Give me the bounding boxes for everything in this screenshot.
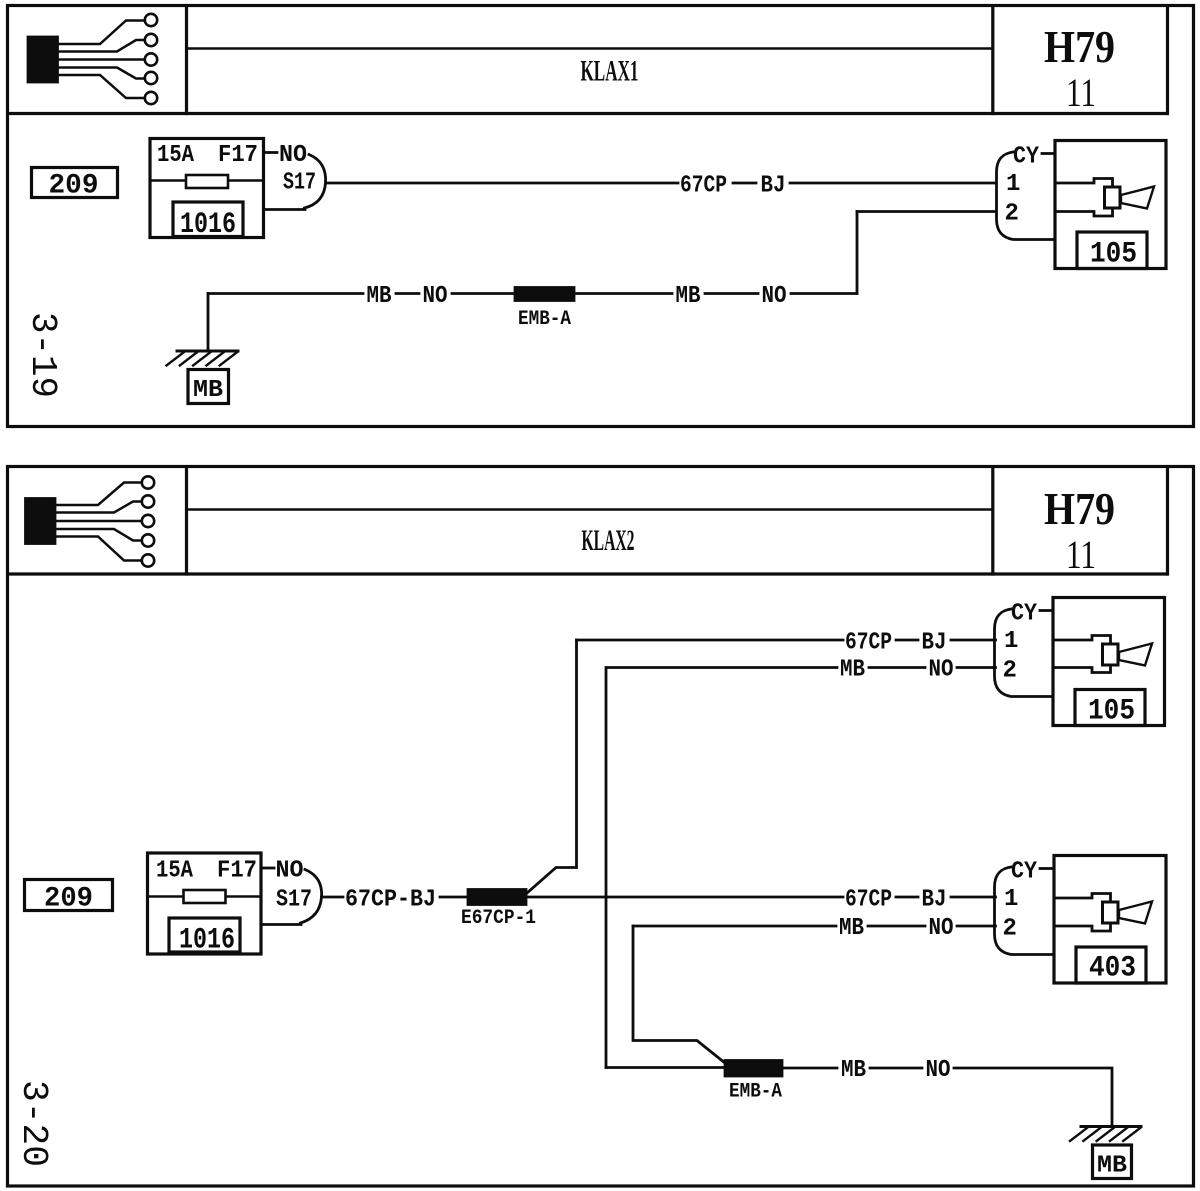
svg-text:67CP: 67CP bbox=[680, 173, 727, 200]
horn driver bbox=[1105, 187, 1121, 208]
wire dash between 67CP and BJ bbox=[896, 896, 918, 899]
wire 67CP from S17 to label bbox=[326, 182, 679, 185]
panel 2 harness connector icon (black body) bbox=[26, 476, 155, 566]
connector S17 arc bbox=[305, 155, 326, 209]
svg-text:403: 403 bbox=[1089, 952, 1136, 986]
svg-text:11: 11 bbox=[1066, 532, 1096, 577]
svg-text:NO: NO bbox=[279, 142, 307, 169]
svg-text:CY: CY bbox=[1011, 601, 1038, 628]
svg-text:KLAX1: KLAX1 bbox=[581, 55, 639, 88]
connector S17 stub to NO bbox=[264, 151, 277, 154]
svg-text:1: 1 bbox=[1006, 171, 1020, 198]
svg-text:105: 105 bbox=[1088, 695, 1135, 729]
panel 1 H79-cell left divider bbox=[991, 7, 994, 114]
svg-text:CY: CY bbox=[1013, 144, 1040, 171]
horn feed top bbox=[1055, 179, 1113, 188]
horn cone bbox=[1119, 644, 1152, 666]
svg-text:NO: NO bbox=[423, 283, 448, 310]
svg-text:2: 2 bbox=[1003, 658, 1017, 685]
svg-text:209: 209 bbox=[49, 171, 99, 202]
svg-text:15A: 15A bbox=[157, 142, 195, 169]
wire splice to MB label bbox=[574, 292, 672, 295]
wire 67CP splice to horn 403 bbox=[526, 896, 843, 899]
svg-text:1: 1 bbox=[1004, 628, 1018, 655]
connector icon wire 4 bbox=[57, 68, 145, 79]
panel 1 outer frame bbox=[8, 6, 1194, 427]
svg-text:15A: 15A bbox=[156, 858, 194, 885]
svg-text:MB: MB bbox=[841, 1057, 866, 1084]
fuse element symbol bbox=[184, 890, 226, 903]
svg-text:NO: NO bbox=[929, 915, 954, 942]
svg-text:2: 2 bbox=[1005, 201, 1019, 228]
CY dash to box bbox=[1040, 867, 1053, 870]
component number 105 bbox=[1077, 232, 1147, 269]
horn 105 (panel 2) bbox=[1053, 598, 1165, 729]
horn 105 (panel 1) bbox=[1055, 141, 1166, 272]
connector icon wire 5 bbox=[57, 75, 145, 98]
wire NO to horn 403 pin 2 bbox=[957, 925, 996, 928]
svg-text:1016: 1016 bbox=[180, 208, 236, 242]
wire MB from horn 105 pin 2 down bbox=[857, 210, 996, 213]
svg-text:CY: CY bbox=[1011, 859, 1038, 886]
panel 2 H79-cell left divider bbox=[991, 468, 994, 574]
horn cone bbox=[1119, 902, 1152, 924]
wire MB down to splice EMB-A bbox=[633, 926, 725, 1063]
panel 2 outer frame bbox=[8, 467, 1194, 1187]
earth ground symbol MB (panel 1) bbox=[167, 351, 239, 404]
connector icon wire 1 bbox=[55, 483, 142, 506]
svg-text:EMB-A: EMB-A bbox=[729, 1081, 782, 1104]
fuse F17 15A (supply box 1016, panel 2) bbox=[148, 853, 262, 958]
svg-text:E67CP-1: E67CP-1 bbox=[461, 907, 536, 930]
svg-text:MB: MB bbox=[367, 283, 392, 310]
svg-text:H79: H79 bbox=[1044, 21, 1115, 72]
connector icon wire 4 bbox=[55, 529, 142, 541]
panel 1 H79-cell right edge bbox=[1166, 7, 1169, 114]
svg-text:1: 1 bbox=[1004, 886, 1018, 913]
horn cone bbox=[1121, 187, 1154, 209]
wire dash between 67CP and BJ bbox=[896, 639, 918, 642]
connector icon wire 2 bbox=[57, 40, 145, 52]
svg-text:F17: F17 bbox=[217, 858, 257, 885]
wire dash MB-NO bbox=[396, 292, 419, 295]
wire MB from horn 105 pin 2 bbox=[606, 668, 837, 1068]
horn feed bottom bbox=[1055, 208, 1113, 216]
panel 1 header bottom line bbox=[9, 112, 1167, 115]
wire 67CP-BJ from S17 to splice bbox=[322, 896, 344, 899]
connector icon wire 2 bbox=[55, 502, 142, 513]
wire dash MB-NO bbox=[870, 1067, 922, 1070]
CY dash to box bbox=[1042, 152, 1054, 155]
svg-text:11: 11 bbox=[1066, 70, 1096, 115]
wire dash MB-NO bbox=[869, 666, 925, 669]
svg-text:1016: 1016 bbox=[179, 924, 235, 958]
svg-text:NO: NO bbox=[929, 657, 954, 684]
svg-text:209: 209 bbox=[44, 884, 93, 915]
ground wire from earth MB bbox=[207, 294, 210, 351]
wire dash MB-NO bbox=[705, 292, 758, 295]
connector icon wire 3 bbox=[55, 520, 142, 523]
label box 209 (panel 2) bbox=[25, 880, 113, 915]
panel 2 H79-cell right edge bbox=[1166, 468, 1169, 574]
horn feed top bbox=[1053, 636, 1111, 645]
svg-text:H79: H79 bbox=[1044, 483, 1115, 534]
connector icon pin circles bbox=[142, 476, 154, 488]
svg-text:67CP: 67CP bbox=[845, 630, 892, 657]
svg-text:MB: MB bbox=[676, 283, 701, 310]
svg-text:BJ: BJ bbox=[922, 887, 947, 914]
splice EMB-A bbox=[515, 288, 574, 332]
panel 2 title box top line bbox=[187, 508, 993, 511]
svg-text:MB: MB bbox=[840, 657, 865, 684]
svg-text:NO: NO bbox=[762, 283, 787, 310]
CY dash to box bbox=[1040, 609, 1052, 612]
panel 2 header bottom line bbox=[9, 572, 1167, 575]
svg-text:MB: MB bbox=[193, 377, 223, 404]
panel 1 connector-cell divider bbox=[185, 7, 188, 114]
connector icon wire 5 bbox=[55, 537, 142, 561]
panel 1 title box top line bbox=[187, 47, 993, 50]
wire NO to ground bbox=[954, 1068, 1112, 1125]
branch from splice up to horn 105 feed bbox=[527, 640, 577, 893]
svg-text:S17: S17 bbox=[283, 170, 316, 197]
svg-text:NO: NO bbox=[276, 858, 304, 885]
wire NO to horn 105 pin 2 bbox=[957, 666, 996, 669]
panel 1 harness connector icon (black body) bbox=[28, 14, 157, 104]
wire NO to splice EMB-A bbox=[452, 292, 515, 295]
fuse F17 15A (supply box 1016) bbox=[150, 139, 264, 243]
horn feed bottom bbox=[1054, 923, 1111, 931]
horn 403 connector CY bracket bbox=[995, 859, 1054, 955]
component number 105 bbox=[1075, 690, 1145, 726]
svg-text:EMB-A: EMB-A bbox=[518, 308, 571, 331]
connector S17 arc bbox=[301, 870, 322, 924]
connector icon wire 3 bbox=[57, 58, 145, 61]
horn feed top bbox=[1054, 894, 1111, 903]
wire BJ to horn 105 pin 1 bbox=[951, 639, 996, 642]
earth ground symbol MB (panel 2) bbox=[1070, 1127, 1141, 1180]
horn driver bbox=[1103, 902, 1119, 923]
svg-text:105: 105 bbox=[1090, 238, 1137, 272]
wire from MB vertical to splice EMB-A bbox=[606, 1066, 725, 1069]
svg-text:MB: MB bbox=[839, 915, 864, 942]
horn 105 connector CY bracket (panel 1) bbox=[997, 144, 1055, 240]
connector icon pin circles bbox=[145, 14, 157, 26]
horn 403 bbox=[1054, 856, 1166, 986]
connector S17 bottom stub bbox=[264, 208, 305, 211]
component number 403 bbox=[1076, 947, 1146, 983]
wire dash between 67CP and BJ bbox=[733, 182, 756, 185]
splice EMB-A (panel 2) bbox=[725, 1061, 782, 1104]
wire NO to corner bbox=[791, 292, 857, 295]
wire MB from horn 403 pin 2 bbox=[633, 925, 836, 928]
box label 1016 bbox=[169, 918, 240, 952]
svg-text:3-19: 3-19 bbox=[22, 312, 63, 398]
svg-text:BJ: BJ bbox=[922, 630, 947, 657]
label box 209 bbox=[32, 168, 118, 202]
splice E67CP-1 bbox=[461, 890, 536, 931]
svg-text:67CP-BJ: 67CP-BJ bbox=[345, 887, 436, 914]
wire splice to MB label bbox=[782, 1067, 837, 1070]
svg-text:S17: S17 bbox=[276, 887, 312, 914]
wire label to splice bbox=[440, 896, 468, 899]
svg-text:MB: MB bbox=[1097, 1153, 1127, 1180]
svg-text:67CP: 67CP bbox=[845, 887, 892, 914]
svg-text:NO: NO bbox=[926, 1057, 951, 1084]
wire dash MB-NO bbox=[868, 925, 925, 928]
horn 105 connector CY bracket (panel 2) bbox=[995, 601, 1053, 697]
wire BJ to horn 105 pin 1 bbox=[790, 182, 996, 185]
svg-text:BJ: BJ bbox=[761, 173, 786, 200]
panel 2 connector-cell divider bbox=[185, 468, 188, 574]
box label 1016 bbox=[173, 202, 243, 237]
wire BJ to horn 403 pin 1 bbox=[951, 896, 996, 899]
svg-text:3-20: 3-20 bbox=[13, 1080, 54, 1167]
wire 67CP to horn 105 pin 1 bbox=[577, 639, 844, 642]
connector S17 bottom stub bbox=[261, 923, 301, 926]
svg-text:F17: F17 bbox=[218, 142, 258, 169]
fuse element symbol bbox=[186, 175, 228, 188]
connector icon wire 1 bbox=[57, 21, 145, 45]
horn feed bottom bbox=[1053, 665, 1111, 673]
svg-text:KLAX2: KLAX2 bbox=[582, 524, 635, 557]
horn driver bbox=[1103, 644, 1119, 665]
connector S17 stub to NO (panel 2) bbox=[262, 867, 274, 870]
svg-text:2: 2 bbox=[1003, 916, 1017, 943]
